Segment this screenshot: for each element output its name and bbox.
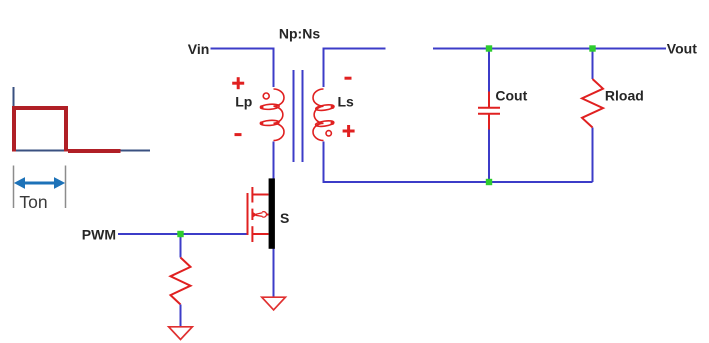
Ton measure tick left xyxy=(13,166,15,209)
MOSFET body arrow xyxy=(253,212,267,218)
MOSFET channel tick middle xyxy=(251,209,253,220)
MOSFET drain stub xyxy=(252,194,268,196)
inductor Ls secondary winding xyxy=(313,89,334,141)
node junction dot top Cout xyxy=(486,45,492,51)
primary polarity plus xyxy=(232,77,244,89)
node junction dot top Rload xyxy=(589,45,595,51)
transistor Q1 MOSFET gate line xyxy=(247,193,249,235)
svg-text:Vout: Vout xyxy=(667,40,697,56)
wire bottom rail xyxy=(323,181,593,183)
wire secondary bottom lead xyxy=(323,142,325,184)
wire primary bottom to MOSFET drain xyxy=(273,142,275,179)
wire Rload bottom xyxy=(592,128,594,183)
waveform PWM pulse high xyxy=(14,108,66,152)
svg-text:S: S xyxy=(280,210,289,226)
wire PWM to gate xyxy=(118,233,248,235)
MOSFET channel tick bottom xyxy=(251,226,253,242)
ground gate resistor xyxy=(169,327,193,340)
svg-text:Np:Ns: Np:Ns xyxy=(279,25,320,41)
Ton arrow xyxy=(15,178,64,188)
node junction dot PWM gate xyxy=(177,231,183,237)
inductor Lp primary winding xyxy=(260,89,284,141)
MOSFET source stub xyxy=(252,233,268,235)
svg-text:PWM: PWM xyxy=(82,226,116,242)
resistor Rload xyxy=(582,79,603,128)
node junction dot bottom Cout xyxy=(486,179,492,185)
primary polarity minus xyxy=(235,133,242,136)
MOSFET channel bar xyxy=(269,178,275,248)
svg-text:Lp: Lp xyxy=(235,94,252,110)
secondary polarity minus xyxy=(345,77,352,80)
wire Cout bottom xyxy=(488,130,490,183)
svg-text:Vin: Vin xyxy=(188,41,210,57)
resistor gate pulldown xyxy=(171,258,191,305)
secondary polarity plus xyxy=(343,125,355,137)
wire secondary top xyxy=(324,49,386,88)
secondary polarity dot xyxy=(326,131,331,136)
wire Rload top xyxy=(592,49,594,80)
wire Vin to transformer xyxy=(211,49,274,88)
waveform axis vertical xyxy=(13,87,15,152)
transformer core line right xyxy=(302,70,304,162)
waveform axis baseline xyxy=(13,150,151,152)
svg-text:Ton: Ton xyxy=(19,192,47,212)
wire MOSFET source to ground xyxy=(273,249,275,298)
Ton measure tick right xyxy=(65,166,67,209)
MOSFET channel tick top xyxy=(251,187,253,203)
svg-text:Rload: Rload xyxy=(605,87,644,103)
waveform PWM pulse low segment xyxy=(68,149,121,153)
wire Cout top xyxy=(488,49,490,92)
MOSFET body stub xyxy=(267,214,269,216)
ground MOSFET source xyxy=(262,297,286,310)
capacitor Cout xyxy=(478,92,500,130)
wire resistor to ground xyxy=(180,305,182,328)
svg-text:Cout: Cout xyxy=(495,87,527,103)
svg-text:Ls: Ls xyxy=(338,94,355,110)
transformer core line left xyxy=(293,70,295,162)
wire top rail to Vout xyxy=(433,48,666,50)
wire gate node down to resistor xyxy=(180,234,182,258)
primary polarity dot xyxy=(263,93,269,99)
